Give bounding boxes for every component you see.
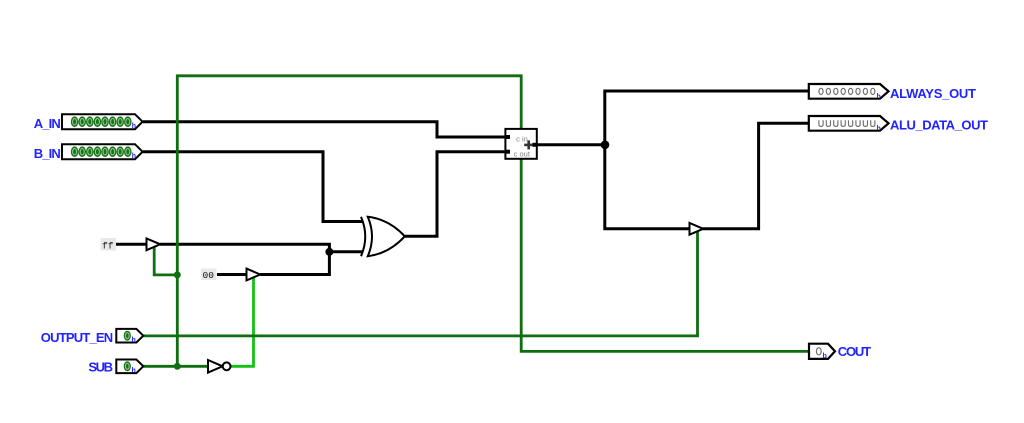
- output pin ALU_DATA_OUT: [809, 116, 988, 133]
- svg-text:h: h: [877, 94, 881, 101]
- svg-text:h: h: [877, 126, 881, 133]
- wire A_IN to adder input 1: [143, 122, 508, 137]
- svg-text:c out: c out: [514, 149, 531, 158]
- svg-text:ff: ff: [102, 240, 114, 251]
- input pin B_IN: [34, 144, 143, 161]
- wire constant 00 to buffer B2: [217, 273, 247, 276]
- wire XOR output to adder input 2: [405, 152, 508, 237]
- wire buffer B3 output to ALU_DATA_OUT: [703, 123, 811, 229]
- wire constant ff to buffer B1: [116, 243, 147, 246]
- wire OUTPUT_EN to buffer B3 enable: [144, 231, 698, 336]
- svg-text:h: h: [132, 123, 136, 130]
- wire junction up to ALWAYS_OUT: [605, 91, 810, 145]
- node junction adder output: [601, 141, 610, 150]
- svg-text:h: h: [132, 337, 136, 344]
- XOR gate: [361, 217, 405, 256]
- svg-text:c in: c in: [516, 134, 528, 143]
- svg-text:ALU_DATA_OUT: ALU_DATA_OUT: [890, 118, 988, 133]
- wire B_IN to XOR top input: [143, 152, 363, 222]
- svg-text:b: b: [823, 353, 827, 360]
- svg-text:B_IN: B_IN: [34, 146, 61, 161]
- input pin SUB: [88, 360, 143, 375]
- svg-text:A_IN: A_IN: [34, 116, 61, 131]
- output pin COUT: [809, 344, 871, 361]
- constant ff: [101, 238, 117, 251]
- wire NOT gate output to buffer B2 enable: [230, 277, 253, 367]
- svg-text:OUTPUT_EN: OUTPUT_EN: [41, 330, 113, 345]
- wire junction down to buffer B3: [605, 145, 690, 229]
- svg-text:COUT: COUT: [838, 344, 871, 359]
- buffer B1 (tri-state, ff): [147, 238, 161, 250]
- node junction SUB pin: [174, 363, 181, 370]
- node junction XOR input: [325, 248, 333, 256]
- wire SUB branch to buffer B1 enable: [154, 248, 177, 275]
- wire adder output to junction: [535, 143, 605, 146]
- svg-text:SUB: SUB: [88, 360, 113, 375]
- svg-text:ALWAYS_OUT: ALWAYS_OUT: [890, 86, 976, 101]
- constant 00: [201, 269, 217, 282]
- NOT gate: [208, 360, 231, 373]
- svg-text:h: h: [132, 153, 136, 160]
- svg-text:h: h: [132, 367, 136, 374]
- input pin A_IN: [34, 114, 143, 131]
- buffer B2 (tri-state, 00): [247, 269, 261, 281]
- buffer B3 (tri-state, output enable): [690, 223, 704, 235]
- adder U1: [505, 129, 537, 159]
- wire SUB net: pin to NOT gate and up to adder carry-in: [144, 76, 522, 367]
- input pin OUTPUT_EN: [41, 329, 144, 345]
- node junction SUB branch: [174, 271, 181, 278]
- svg-text:00: 00: [203, 270, 215, 281]
- wire buffer B1 output to junction and buffer B2 output: [160, 244, 329, 274]
- wire junction to XOR bottom input: [329, 250, 363, 253]
- output pin ALWAYS_OUT: [809, 84, 976, 101]
- wire adder carry-out to COUT: [521, 157, 808, 351]
